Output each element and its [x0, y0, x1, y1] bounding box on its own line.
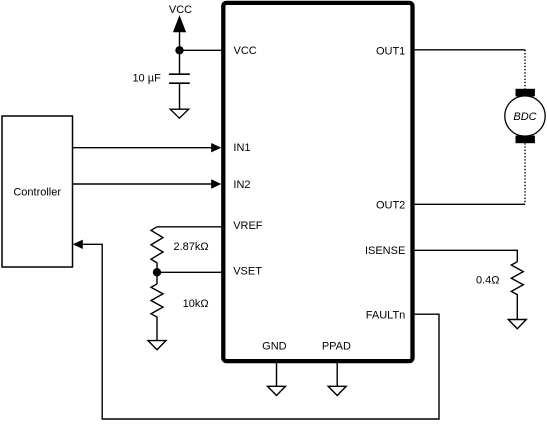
- svg-text:ISENSE: ISENSE: [365, 245, 405, 257]
- ground (below R2): [148, 341, 166, 350]
- resistor R1 2.87kOhm: [151, 227, 163, 272]
- wire: FAULTn pin around bottom to Controller: [81, 244, 439, 419]
- svg-text:BDC: BDC: [513, 111, 536, 123]
- wire: Controller to IN2: [73, 179, 222, 188]
- wire: VCC node to IC VCC pin: [180, 49, 222, 51]
- node: VCC junction dot: [175, 46, 183, 54]
- wire: GND pin stub: [276, 361, 278, 386]
- wire: VREF pin to R1: [157, 226, 222, 228]
- wire: motor corner to OUT2 pin: [415, 203, 525, 205]
- svg-text:2.87kΩ: 2.87kΩ: [174, 241, 209, 253]
- motor M1 BDC: [505, 89, 545, 143]
- svg-text:Controller: Controller: [13, 187, 61, 199]
- svg-text:OUT1: OUT1: [376, 45, 405, 57]
- ground (below C1): [170, 109, 188, 118]
- svg-text:10 µF: 10 µF: [132, 72, 161, 84]
- wire: PPAD pin stub: [336, 361, 338, 386]
- ground (below PPAD pin): [328, 386, 346, 395]
- resistor R3 0.4Ohm: [511, 262, 523, 320]
- capacitor C1 10 µF: [169, 50, 190, 109]
- wire: OUT1 pin to motor (corner at right): [415, 49, 525, 51]
- svg-text:10kΩ: 10kΩ: [183, 298, 209, 310]
- resistor R2 10kOhm: [151, 272, 163, 340]
- wire: node to VSET pin: [157, 271, 222, 273]
- node: VSET junction dot: [153, 268, 161, 276]
- ground (below R3): [508, 320, 526, 329]
- svg-text:OUT2: OUT2: [376, 199, 405, 211]
- svg-text:VCC: VCC: [234, 45, 257, 57]
- svg-text:VCC: VCC: [169, 4, 192, 16]
- ground (below GND pin): [268, 386, 286, 395]
- Controller box: [2, 116, 73, 267]
- wire: dashed drop from motor bottom terminal to OUT2 corner: [524, 143, 526, 204]
- svg-text:0.4Ω: 0.4Ω: [476, 274, 500, 286]
- arrowhead into Controller (FAULTn feedback): [73, 240, 83, 249]
- svg-text:PPAD: PPAD: [322, 341, 351, 353]
- VCC supply symbol: [169, 4, 192, 51]
- wire: dashed drop from OUT1 corner to motor top terminal: [524, 50, 526, 89]
- svg-text:GND: GND: [262, 341, 287, 353]
- svg-text:FAULTn: FAULTn: [366, 310, 406, 322]
- svg-text:IN2: IN2: [233, 179, 250, 191]
- svg-text:VREF: VREF: [233, 220, 263, 232]
- IC U1 motor driver body: [223, 3, 412, 361]
- wire: ISENSE pin to R3: [415, 250, 518, 261]
- svg-text:IN1: IN1: [233, 142, 250, 154]
- svg-text:VSET: VSET: [233, 266, 262, 278]
- wire: Controller to IN1: [73, 143, 222, 152]
